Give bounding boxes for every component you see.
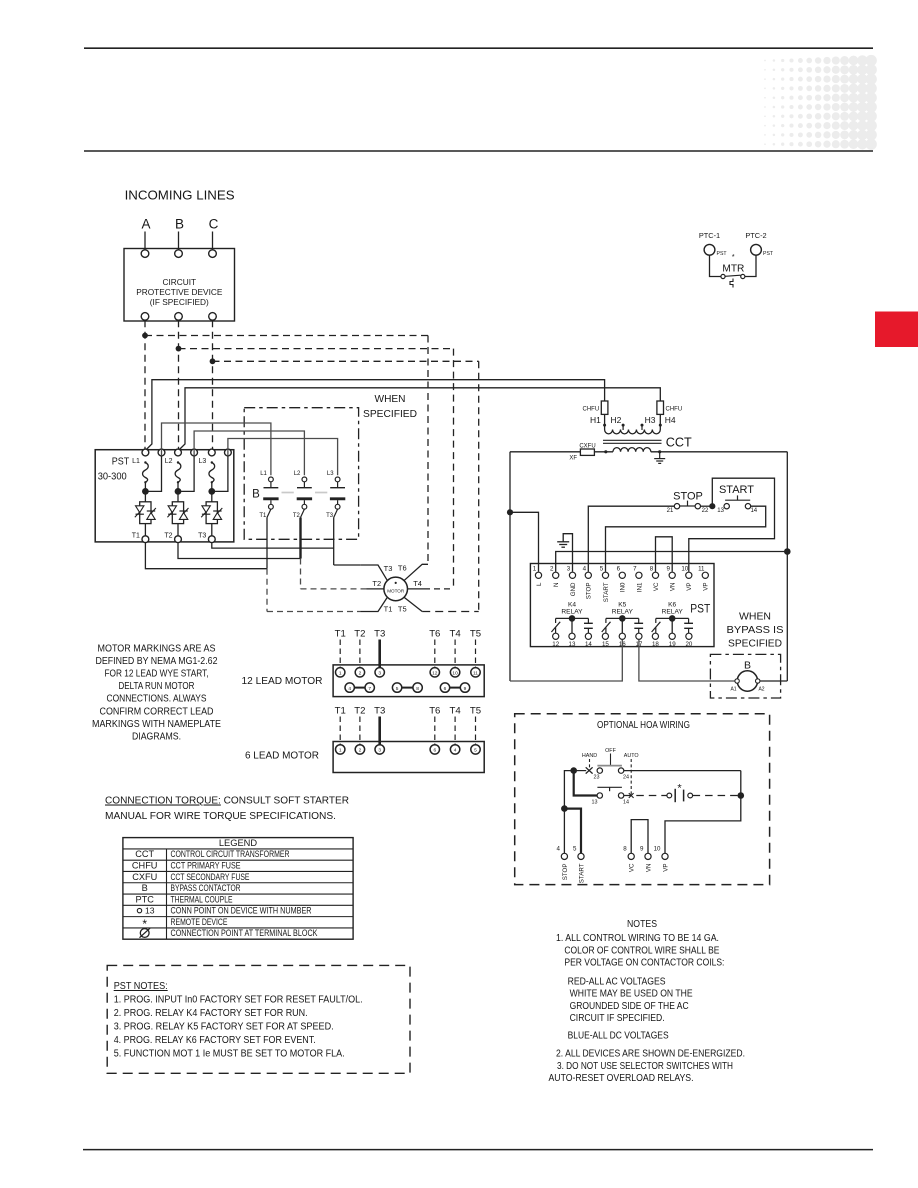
wire VP feed loop (node to terminal 10) xyxy=(689,478,775,572)
svg-text:H3: H3 xyxy=(645,415,656,425)
svg-text:CONNECTION POINT AT TERMINAL B: CONNECTION POINT AT TERMINAL BLOCK xyxy=(171,928,318,938)
svg-text:MOTOR MARKINGS ARE AS: MOTOR MARKINGS ARE AS xyxy=(98,643,216,654)
svg-text:T6: T6 xyxy=(429,706,440,717)
motor MTR circle xyxy=(384,577,408,601)
PST terminal L3 xyxy=(208,449,215,456)
svg-text:19: 19 xyxy=(669,641,676,648)
wire STOP to node xyxy=(701,505,713,507)
wire CCT secondary right to rail xyxy=(651,451,788,453)
svg-text:13: 13 xyxy=(145,906,155,916)
svg-text:8: 8 xyxy=(623,846,627,853)
svg-text:MOTOR: MOTOR xyxy=(387,589,405,594)
svg-text:CHFU: CHFU xyxy=(132,860,158,870)
svg-text:6 LEAD MOTOR: 6 LEAD MOTOR xyxy=(245,750,319,762)
svg-text:10: 10 xyxy=(681,566,688,573)
wire fuse to winding with node xyxy=(594,451,613,453)
svg-text:3. DO NOT USE SELECTOR SWITCHE: 3. DO NOT USE SELECTOR SWITCHES WITH xyxy=(557,1061,733,1072)
junction right rail / N line xyxy=(784,548,791,555)
wire dashed vertical to motor lead xyxy=(427,336,429,565)
svg-text:LEGEND: LEGEND xyxy=(219,838,258,848)
svg-text:B: B xyxy=(142,883,148,893)
svg-text:PST: PST xyxy=(763,251,774,257)
junction node phase 3 xyxy=(208,488,215,495)
wire PST T2 output row xyxy=(178,543,301,559)
svg-text:T1: T1 xyxy=(132,533,140,540)
wire PTC-1 to switch xyxy=(710,255,721,276)
jog below T2 xyxy=(301,509,305,517)
svg-text:CCT SECONDARY FUSE: CCT SECONDARY FUSE xyxy=(171,872,250,882)
terminal 3 (12 lead row 1) xyxy=(375,668,384,677)
gang link between bypass poles xyxy=(282,492,294,494)
6 lead motor terminal box xyxy=(333,742,484,773)
wire to junction phase 2 xyxy=(177,482,179,502)
svg-text:CHFU: CHFU xyxy=(583,407,600,413)
svg-text:11: 11 xyxy=(698,566,705,573)
svg-text:11: 11 xyxy=(473,671,478,677)
PST bypass tap terminal (phase 1) xyxy=(158,449,165,456)
svg-text:4: 4 xyxy=(348,686,351,692)
svg-text:T5: T5 xyxy=(470,706,481,717)
bypass enclosure dashed box xyxy=(244,408,358,540)
strip terminal 17 xyxy=(636,633,642,639)
svg-text:5: 5 xyxy=(600,566,604,573)
svg-text:PST: PST xyxy=(112,457,130,468)
svg-text:CONNECTION TORQUE: CONSULT SOF: CONNECTION TORQUE: CONSULT SOFT STARTER xyxy=(105,796,349,807)
soft starter box PST 30-300 xyxy=(95,450,234,542)
svg-text:6: 6 xyxy=(617,566,621,573)
svg-text:C: C xyxy=(209,217,219,232)
CPD terminal xyxy=(209,250,217,258)
inline inductor squiggle phase 3 xyxy=(211,461,213,463)
terminal 5 (6 lead) xyxy=(471,745,480,754)
svg-text:STOP: STOP xyxy=(562,864,569,881)
svg-text:L2: L2 xyxy=(294,471,301,477)
terminal 1 (12 lead row 1) xyxy=(336,668,345,677)
MTR thermal switch xyxy=(721,274,725,278)
header bottom rule xyxy=(84,150,873,152)
svg-text:22: 22 xyxy=(702,508,709,514)
wire right control rail xyxy=(786,452,788,681)
wire phase C dashed drop xyxy=(212,320,214,450)
wire N line (terminal 2 to right rail) xyxy=(556,552,788,572)
svg-text:T1: T1 xyxy=(384,604,393,613)
footer rule xyxy=(83,1149,873,1151)
svg-text:T4: T4 xyxy=(449,629,461,640)
svg-text:5: 5 xyxy=(474,748,477,754)
wire phase B dashed run to motor xyxy=(179,348,454,350)
svg-text:RELAY: RELAY xyxy=(561,609,583,616)
svg-text:14: 14 xyxy=(750,508,757,514)
wire CCT primary tap H4 from phase B xyxy=(179,388,660,450)
svg-text:1. ALL CONTROL WIRING TO BE 14: 1. ALL CONTROL WIRING TO BE 14 GA. xyxy=(556,933,719,944)
svg-text:T3: T3 xyxy=(374,629,385,640)
svg-text:B: B xyxy=(252,488,260,500)
svg-text:L1: L1 xyxy=(260,471,267,477)
selector linkage lines xyxy=(589,759,591,769)
svg-text:RELAY: RELAY xyxy=(662,609,684,616)
wire terminal 4 to STOP button xyxy=(588,506,674,572)
svg-text:CONTROL CIRCUIT TRANSFORMER: CONTROL CIRCUIT TRANSFORMER xyxy=(171,849,290,859)
svg-text:1: 1 xyxy=(533,566,537,573)
selector contact 23-24 xyxy=(577,770,586,772)
wire H4 fuse to winding xyxy=(659,414,661,429)
wire to terminal 4 xyxy=(563,809,565,854)
svg-text:4: 4 xyxy=(454,748,457,754)
strip terminal 12 xyxy=(553,633,559,639)
svg-text:7: 7 xyxy=(368,686,371,692)
svg-text:XF: XF xyxy=(569,455,577,461)
svg-text:A1: A1 xyxy=(730,687,736,693)
svg-text:7: 7 xyxy=(633,566,637,573)
bypass contact pole 3 xyxy=(337,482,339,488)
ground at terminal 3 xyxy=(557,541,569,543)
svg-text:T5: T5 xyxy=(398,604,407,613)
svg-text:2. ALL DEVICES ARE SHOWN DE-EN: 2. ALL DEVICES ARE SHOWN DE-ENERGIZED. xyxy=(556,1049,745,1060)
wire to terminal 5 xyxy=(564,809,581,854)
bypass contact pole 2 xyxy=(303,482,305,488)
PST terminal L1 xyxy=(142,449,149,456)
svg-text:T4: T4 xyxy=(449,706,461,717)
HOA contact 13-14 xyxy=(597,793,602,798)
bypass contact pole 1 xyxy=(270,482,272,488)
svg-text:L1: L1 xyxy=(132,458,140,465)
svg-text:13: 13 xyxy=(717,508,724,514)
svg-text:(IF SPECIFIED): (IF SPECIFIED) xyxy=(150,297,209,307)
svg-text:MTR: MTR xyxy=(722,262,744,274)
svg-text:HAND: HAND xyxy=(582,753,597,759)
svg-text:T2: T2 xyxy=(164,533,172,540)
svg-text:START: START xyxy=(603,582,610,602)
svg-text:L2: L2 xyxy=(165,458,173,465)
SCR pair Q1 (anti-parallel thyristors) xyxy=(140,502,151,524)
svg-text:12: 12 xyxy=(552,641,559,648)
svg-text:PST: PST xyxy=(690,602,711,616)
svg-text:T2: T2 xyxy=(372,579,381,588)
circuit protective device box CPD xyxy=(124,249,235,322)
svg-text:PTC: PTC xyxy=(136,894,155,904)
svg-text:NOTES: NOTES xyxy=(627,919,657,930)
inline inductor squiggle phase 1 xyxy=(144,461,146,463)
wire staple terminal 8 to 9 xyxy=(656,537,673,572)
svg-text:DELTA RUN MOTOR: DELTA RUN MOTOR xyxy=(119,681,195,692)
svg-text:H4: H4 xyxy=(665,415,676,425)
wire dashed vertical to motor lead xyxy=(453,349,455,589)
wire bypass feed L3 (gray) xyxy=(228,439,338,476)
svg-text:T6: T6 xyxy=(429,629,440,640)
terminal 2 (12 lead row 1) xyxy=(355,668,364,677)
svg-text:20: 20 xyxy=(685,641,692,648)
svg-text:COLOR OF CONTROL WIRE SHALL BE: COLOR OF CONTROL WIRE SHALL BE xyxy=(564,945,719,956)
PST bypass tap terminal (phase 2) xyxy=(191,449,198,456)
svg-text:6: 6 xyxy=(444,686,447,692)
wire HOA thick drop to 13 xyxy=(574,771,597,796)
svg-text:OFF: OFF xyxy=(605,748,616,754)
wire CCT secondary left to rail xyxy=(510,451,580,453)
jumper 4-7 (12 lead row 2) xyxy=(354,687,365,689)
wire bypass feed L1 (gray) xyxy=(162,423,271,475)
CCT primary winding xyxy=(605,430,661,434)
svg-text:DIAGRAMS.: DIAGRAMS. xyxy=(132,732,181,743)
svg-text:THERMAL COUPLE: THERMAL COUPLE xyxy=(171,894,233,904)
jumper 6-9 (12 lead row 2) xyxy=(450,687,461,689)
legend symbol: terminal block point xyxy=(140,929,149,938)
svg-text:14: 14 xyxy=(585,641,592,648)
primary taps H2 H3 xyxy=(622,425,624,430)
wire junction to bypass tap phase 2 xyxy=(178,456,194,492)
strip terminal 18 xyxy=(652,633,658,639)
svg-text:3: 3 xyxy=(378,671,381,677)
svg-text:STOP: STOP xyxy=(586,583,593,600)
svg-text:A: A xyxy=(141,217,150,232)
svg-text:H2: H2 xyxy=(611,415,622,425)
SCR pair Q3 (anti-parallel thyristors) xyxy=(206,502,217,524)
svg-text:1. PROG. INPUT In0 FACTORY SET: 1. PROG. INPUT In0 FACTORY SET FOR RESET… xyxy=(114,995,363,1006)
svg-text:WHITE MAY BE USED ON THE: WHITE MAY BE USED ON THE xyxy=(570,989,693,1000)
PST notes dashed box xyxy=(107,965,410,1073)
wire bypass feed L2 (gray) xyxy=(194,431,304,475)
svg-text:15: 15 xyxy=(602,641,609,648)
strip terminal 20 xyxy=(686,633,692,639)
svg-text:IN1: IN1 xyxy=(636,582,643,592)
inline inductor squiggle phase 2 xyxy=(177,461,179,463)
terminal 1 (6 lead) xyxy=(336,745,345,754)
svg-text:GROUNDED SIDE OF THE AC: GROUNDED SIDE OF THE AC xyxy=(570,1001,689,1012)
svg-text:2: 2 xyxy=(359,671,362,677)
svg-text:2: 2 xyxy=(550,566,554,573)
svg-text:T3: T3 xyxy=(374,706,385,717)
svg-text:A2: A2 xyxy=(758,687,764,693)
svg-text:VN: VN xyxy=(670,583,677,592)
svg-text:PST NOTES:: PST NOTES: xyxy=(114,981,168,992)
svg-text:B: B xyxy=(175,217,184,232)
svg-text:2. PROG. RELAY K4 FACTORY SET: 2. PROG. RELAY K4 FACTORY SET FOR RUN. xyxy=(114,1008,308,1019)
wire terminal 3 to ground xyxy=(563,534,572,572)
svg-text:3: 3 xyxy=(378,748,381,754)
svg-text:5: 5 xyxy=(396,686,399,692)
svg-text:T1: T1 xyxy=(259,513,267,519)
svg-text:L3: L3 xyxy=(327,471,334,477)
svg-text:T3: T3 xyxy=(384,564,393,573)
motor lead T3 xyxy=(360,565,387,581)
svg-text:13: 13 xyxy=(592,799,598,805)
jumper 5-8 (12 lead row 2) xyxy=(402,687,413,689)
bypass contactor B terminal T1 xyxy=(269,504,274,509)
optional HOA wiring dashed box xyxy=(515,714,770,885)
svg-text:5. FUNCTION MOT 1 Ie MUST BE S: 5. FUNCTION MOT 1 Ie MUST BE SET TO MOTO… xyxy=(114,1049,345,1060)
strip terminal 13 xyxy=(569,633,575,639)
svg-text:*: * xyxy=(677,783,682,795)
svg-text:CHFU: CHFU xyxy=(666,407,683,413)
svg-text:L3: L3 xyxy=(199,458,207,465)
terminal 4 (6 lead) xyxy=(450,745,459,754)
svg-text:21: 21 xyxy=(667,508,674,514)
wire PST T1 output row xyxy=(145,543,267,569)
wire START 14 to terminal 5 xyxy=(606,506,766,572)
motor lead T6 xyxy=(404,564,428,580)
svg-text:AUTO: AUTO xyxy=(624,753,639,759)
svg-text:AUTO-RESET OVERLOAD RELAYS.: AUTO-RESET OVERLOAD RELAYS. xyxy=(549,1073,694,1084)
junction phase A xyxy=(142,333,148,339)
motor lead T1 xyxy=(360,597,387,611)
wire phase A dashed drop xyxy=(144,320,146,450)
terminal 10 (12 lead row 1) xyxy=(450,668,459,677)
svg-text:VN: VN xyxy=(645,864,652,873)
svg-text:T2: T2 xyxy=(354,706,365,717)
svg-text:PST: PST xyxy=(717,251,728,257)
svg-text:T1: T1 xyxy=(335,706,346,717)
wire PST T3 output row xyxy=(212,543,334,549)
junction node phase 1 xyxy=(142,488,149,495)
svg-text:6: 6 xyxy=(433,748,436,754)
jog below T3 xyxy=(334,509,338,517)
CCT secondary winding xyxy=(613,448,651,452)
junction stop/start xyxy=(561,805,568,812)
wire phase A dashed run to motor xyxy=(145,335,428,337)
svg-text:VP: VP xyxy=(703,583,710,591)
svg-text:VP: VP xyxy=(686,583,693,591)
wire left control rail xyxy=(509,452,511,681)
PST terminal T2 xyxy=(177,524,179,536)
svg-text:12: 12 xyxy=(432,671,438,677)
wire junction to bypass tap phase 3 xyxy=(212,456,228,492)
svg-text:PTC-2: PTC-2 xyxy=(745,231,766,240)
PST bypass tap terminal (phase 3) xyxy=(225,449,232,456)
wire to junction phase 3 xyxy=(211,482,213,502)
svg-text:REMOTE DEVICE: REMOTE DEVICE xyxy=(171,917,228,927)
PST terminal T1 xyxy=(144,524,146,536)
svg-text:CCT PRIMARY FUSE: CCT PRIMARY FUSE xyxy=(171,860,241,870)
svg-text:IN0: IN0 xyxy=(620,582,627,592)
svg-text:1: 1 xyxy=(339,748,342,754)
legend symbol: conn point xyxy=(137,908,141,912)
wire remote to right junction xyxy=(693,795,738,797)
svg-text:WHEN: WHEN xyxy=(739,611,771,623)
svg-text:BYPASS IS: BYPASS IS xyxy=(727,624,784,636)
wire left drop to stop terminal xyxy=(564,771,573,809)
svg-text:MARKINGS WITH NAMEPLATE: MARKINGS WITH NAMEPLATE xyxy=(92,719,221,730)
svg-text:T5: T5 xyxy=(470,629,481,640)
svg-text:9: 9 xyxy=(666,566,670,573)
svg-text:CONN POINT ON DEVICE WITH NUMB: CONN POINT ON DEVICE WITH NUMBER xyxy=(171,906,312,916)
svg-text:23: 23 xyxy=(594,774,600,780)
PST terminal T3 xyxy=(211,524,213,536)
svg-text:VP: VP xyxy=(662,864,669,872)
ground at CCT secondary xyxy=(659,452,661,459)
junction phase B xyxy=(176,346,182,352)
terminal 3 (6 lead) xyxy=(375,745,384,754)
SCR pair Q2 (anti-parallel thyristors) xyxy=(172,502,183,524)
svg-text:DEFINED BY NEMA MG1-2.62: DEFINED BY NEMA MG1-2.62 xyxy=(96,656,218,667)
svg-text:3. PROG. RELAY K5 FACTORY SET: 3. PROG. RELAY K5 FACTORY SET FOR AT SPE… xyxy=(114,1022,334,1033)
wire 14 dashed to remote device xyxy=(624,795,667,797)
svg-text:T2: T2 xyxy=(354,629,365,640)
svg-text:H1: H1 xyxy=(590,415,601,425)
svg-text:FOR 12 LEAD WYE START,: FOR 12 LEAD WYE START, xyxy=(105,669,209,680)
svg-text:4: 4 xyxy=(583,566,587,573)
svg-text:12 LEAD MOTOR: 12 LEAD MOTOR xyxy=(242,675,323,687)
svg-text:T1: T1 xyxy=(335,629,346,640)
svg-text:5: 5 xyxy=(573,846,577,853)
strip terminal 19 xyxy=(669,633,675,639)
motor lead T2 xyxy=(367,588,384,590)
svg-text:10: 10 xyxy=(452,671,458,677)
svg-text:PER VOLTAGE ON CONTACTOR COILS: PER VOLTAGE ON CONTACTOR COILS: xyxy=(564,957,724,968)
svg-text:T3: T3 xyxy=(198,533,206,540)
svg-text:13: 13 xyxy=(569,641,576,648)
junction HOA right xyxy=(738,792,745,799)
wire H1 fuse to winding xyxy=(604,414,606,429)
wire phase C dashed run to motor xyxy=(213,360,479,362)
svg-text:MANUAL FOR WIRE TORQUE SPECIFI: MANUAL FOR WIRE TORQUE SPECIFICATIONS. xyxy=(105,811,336,822)
wire junction to bypass tap phase 1 xyxy=(145,456,161,492)
wire bypass T2 to motor T2 xyxy=(299,518,301,559)
fuse CHFU (H4) xyxy=(657,401,664,414)
svg-text:CIRCUIT: CIRCUIT xyxy=(162,277,196,287)
junction HOA top xyxy=(570,767,577,774)
svg-text:START: START xyxy=(719,484,754,496)
svg-text:START: START xyxy=(578,863,585,883)
svg-text:24: 24 xyxy=(623,774,629,780)
header top rule xyxy=(84,47,873,49)
wire to junction phase 1 xyxy=(144,482,146,502)
wire terminal 17 to bypass coil A1 xyxy=(639,640,737,681)
svg-text:OPTIONAL HOA WIRING: OPTIONAL HOA WIRING xyxy=(597,719,690,731)
wire 24 to right side xyxy=(624,770,741,772)
red side tab xyxy=(875,312,918,348)
svg-text:CONFIRM CORRECT LEAD: CONFIRM CORRECT LEAD xyxy=(100,706,214,717)
svg-text:4. PROG. RELAY K6 FACTORY SET: 4. PROG. RELAY K6 FACTORY SET FOR EVENT. xyxy=(114,1035,316,1046)
CPD terminal xyxy=(175,250,183,258)
wire staple 8-9 (HOA) xyxy=(631,820,648,854)
svg-text:RED-ALL AC VOLTAGES: RED-ALL AC VOLTAGES xyxy=(568,977,666,988)
terminal 6 (6 lead) xyxy=(430,745,439,754)
jog below T1 xyxy=(267,509,271,517)
wire dashed vertical to motor lead xyxy=(478,361,480,611)
svg-text:30-300: 30-300 xyxy=(98,472,127,483)
strip terminal 16 xyxy=(619,633,625,639)
PST terminal strip box xyxy=(530,564,714,647)
svg-text:INCOMING LINES: INCOMING LINES xyxy=(125,188,235,203)
PST terminal L2 xyxy=(175,449,182,456)
svg-text:10: 10 xyxy=(654,846,661,853)
svg-text:14: 14 xyxy=(623,799,629,805)
wire PTC-2 to switch xyxy=(745,255,756,276)
svg-text:SPECIFIED: SPECIFIED xyxy=(363,408,417,420)
svg-text:N: N xyxy=(553,583,560,587)
terminal 2 (6 lead) xyxy=(355,745,364,754)
wire phase B dashed drop xyxy=(178,320,180,450)
svg-text:PROTECTIVE DEVICE: PROTECTIVE DEVICE xyxy=(136,287,223,297)
svg-text:8: 8 xyxy=(416,686,419,692)
svg-text:GND: GND xyxy=(570,582,577,596)
bypass coil dashed box xyxy=(710,654,780,698)
terminal 12 (12 lead row 1) xyxy=(430,668,439,677)
svg-text:BYPASS CONTACTOR: BYPASS CONTACTOR xyxy=(171,883,241,893)
junction node phase 2 xyxy=(175,488,182,495)
svg-text:CCT: CCT xyxy=(135,849,154,859)
svg-text:2: 2 xyxy=(359,748,362,754)
legend table xyxy=(123,838,353,940)
svg-text:4: 4 xyxy=(556,846,560,853)
wire right loop to terminal 10 xyxy=(665,771,741,854)
svg-text:CONNECTIONS. ALWAYS: CONNECTIONS. ALWAYS xyxy=(107,694,207,705)
svg-text:CIRCUIT IF SPECIFIED.: CIRCUIT IF SPECIFIED. xyxy=(570,1013,665,1024)
svg-text:3: 3 xyxy=(567,566,571,573)
strip terminal 14 xyxy=(585,633,591,639)
wire coil A2 to right rail xyxy=(760,680,787,682)
svg-text:K4: K4 xyxy=(568,601,576,608)
svg-text:STOP: STOP xyxy=(673,490,703,502)
